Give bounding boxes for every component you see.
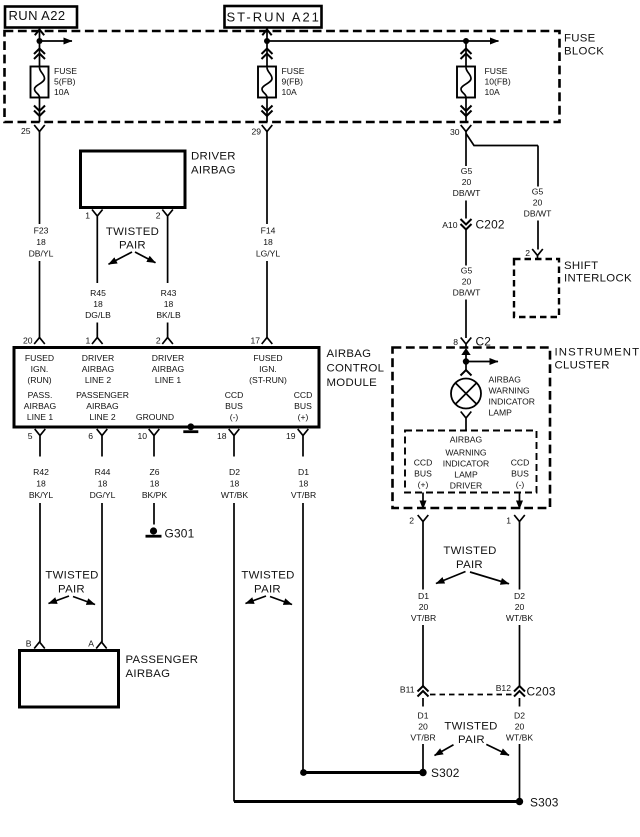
svg-text:(-): (-) [516,480,525,490]
svg-text:10A: 10A [485,87,501,97]
svg-text:DB/WT: DB/WT [453,288,481,298]
svg-text:6: 6 [88,431,93,441]
svg-text:GROUND: GROUND [136,412,174,422]
svg-text:B12: B12 [496,683,512,693]
svg-text:2: 2 [156,336,161,346]
svg-text:R44: R44 [95,467,111,477]
svg-text:ST-RUN A21: ST-RUN A21 [227,10,321,25]
svg-text:20: 20 [419,602,429,612]
svg-text:AIRBAG: AIRBAG [191,165,236,177]
svg-text:TWISTED: TWISTED [241,570,294,582]
svg-text:18: 18 [36,479,46,489]
svg-text:18: 18 [98,479,108,489]
svg-text:D2: D2 [229,467,240,477]
svg-text:G301: G301 [165,527,195,541]
svg-text:R43: R43 [161,288,177,298]
svg-text:TWISTED: TWISTED [444,721,497,733]
svg-text:BLOCK: BLOCK [564,46,604,58]
svg-text:CCD: CCD [511,458,530,468]
svg-text:AIRBAG: AIRBAG [152,364,185,374]
svg-text:CLUSTER: CLUSTER [555,360,610,372]
svg-text:10A: 10A [54,87,70,97]
svg-text:MODULE: MODULE [327,377,378,389]
svg-text:VT/BR: VT/BR [410,733,435,743]
svg-text:5(FB): 5(FB) [54,77,76,87]
svg-text:DRIVER: DRIVER [450,481,482,491]
svg-text:(+): (+) [418,480,429,490]
svg-text:TWISTED: TWISTED [45,570,98,582]
svg-text:20: 20 [462,177,472,187]
svg-text:20: 20 [462,277,472,287]
svg-text:S303: S303 [530,796,559,810]
svg-text:F14: F14 [261,226,276,236]
svg-text:2: 2 [525,248,530,258]
svg-text:Z6: Z6 [149,467,159,477]
svg-text:CCD: CCD [294,390,313,400]
svg-text:(ST-RUN): (ST-RUN) [249,375,287,385]
svg-text:D2: D2 [514,591,525,601]
svg-text:B11: B11 [400,684,415,694]
svg-text:R45: R45 [90,288,106,298]
svg-text:9(FB): 9(FB) [282,77,304,87]
svg-text:29: 29 [251,127,261,137]
svg-text:18: 18 [217,431,227,441]
svg-text:CCD: CCD [225,390,244,400]
svg-text:FUSE: FUSE [54,66,77,76]
svg-text:PAIR: PAIR [119,240,146,252]
svg-text:PASSENGER: PASSENGER [76,390,129,400]
svg-text:DG/LB: DG/LB [85,310,111,320]
svg-text:BUS: BUS [294,401,312,411]
svg-text:TWISTED: TWISTED [443,545,496,557]
svg-text:5: 5 [28,431,33,441]
svg-text:AIRBAG: AIRBAG [24,401,57,411]
svg-text:WT/BK: WT/BK [506,733,533,743]
svg-text:VT/BR: VT/BR [291,490,316,500]
svg-text:FUSE: FUSE [282,66,305,76]
svg-text:BUS: BUS [414,469,432,479]
svg-text:INTERLOCK: INTERLOCK [564,273,632,285]
svg-text:LINE 1: LINE 1 [27,412,53,422]
svg-text:BK/LB: BK/LB [156,310,181,320]
svg-text:18: 18 [93,299,103,309]
svg-text:G5: G5 [532,187,544,197]
svg-text:AIRBAG: AIRBAG [450,435,483,445]
svg-text:PASS.: PASS. [28,390,53,400]
svg-text:TWISTED: TWISTED [106,226,159,238]
svg-text:CONTROL: CONTROL [327,363,385,375]
svg-text:AIRBAG: AIRBAG [489,375,522,385]
svg-text:G5: G5 [461,166,473,176]
svg-text:INSTRUMENT: INSTRUMENT [555,347,640,359]
svg-text:A: A [88,639,94,649]
svg-text:BK/YL: BK/YL [29,490,54,500]
svg-text:INDICATOR: INDICATOR [443,459,489,469]
svg-text:C202: C202 [476,218,505,232]
svg-text:LG/YL: LG/YL [256,249,281,259]
svg-text:FUSE: FUSE [485,66,508,76]
svg-text:FUSED: FUSED [25,353,54,363]
svg-text:FUSED: FUSED [253,353,282,363]
svg-text:DRIVER: DRIVER [191,151,236,163]
svg-text:20: 20 [23,336,33,346]
svg-text:LINE 2: LINE 2 [85,375,111,385]
svg-text:FUSE: FUSE [564,33,596,45]
svg-text:20: 20 [418,722,428,732]
svg-text:2: 2 [409,516,414,526]
svg-text:PASSENGER: PASSENGER [126,654,199,666]
svg-text:1: 1 [86,336,91,346]
svg-text:DRIVER: DRIVER [152,353,184,363]
svg-text:PAIR: PAIR [254,583,281,595]
svg-text:B: B [26,639,32,649]
svg-text:VT/BR: VT/BR [411,613,436,623]
svg-text:LAMP: LAMP [489,408,513,418]
svg-text:18: 18 [36,237,46,247]
svg-text:10(FB): 10(FB) [485,77,511,87]
svg-text:BK/PK: BK/PK [142,490,168,500]
svg-text:25: 25 [21,126,31,136]
svg-text:19: 19 [286,431,296,441]
svg-text:8: 8 [453,337,458,347]
svg-text:WARNING: WARNING [489,386,531,396]
svg-text:SHIFT: SHIFT [564,260,598,272]
svg-text:20: 20 [515,722,525,732]
svg-text:AIRBAG: AIRBAG [86,401,119,411]
svg-text:WARNING: WARNING [445,448,487,458]
svg-text:S302: S302 [431,766,460,780]
svg-text:WT/BK: WT/BK [221,490,248,500]
svg-text:G5: G5 [461,266,473,276]
svg-text:D1: D1 [418,711,429,721]
svg-text:LAMP: LAMP [454,470,478,480]
svg-text:A10: A10 [442,220,458,230]
svg-text:DB/WT: DB/WT [453,188,481,198]
svg-text:(RUN): (RUN) [27,375,51,385]
svg-text:10: 10 [137,431,147,441]
svg-text:20: 20 [533,198,543,208]
svg-text:DB/YL: DB/YL [29,249,54,259]
svg-text:DB/WT: DB/WT [524,209,552,219]
svg-text:PAIR: PAIR [58,583,85,595]
svg-text:D1: D1 [418,591,429,601]
svg-text:(+): (+) [298,412,309,422]
svg-text:R42: R42 [33,467,49,477]
svg-text:DG/YL: DG/YL [90,490,116,500]
svg-text:PAIR: PAIR [456,559,483,571]
svg-text:18: 18 [263,237,273,247]
svg-text:20: 20 [515,602,525,612]
svg-text:30: 30 [450,127,460,137]
svg-text:1: 1 [506,516,511,526]
svg-text:IGN.: IGN. [31,364,49,374]
svg-text:LINE 2: LINE 2 [89,412,115,422]
svg-text:AIRBAG: AIRBAG [327,348,372,360]
svg-text:D1: D1 [298,467,309,477]
svg-text:C203: C203 [527,685,556,699]
svg-text:2: 2 [156,211,161,221]
svg-text:F23: F23 [34,226,49,236]
svg-text:AIRBAG: AIRBAG [82,364,115,374]
svg-text:(-): (-) [230,412,239,422]
svg-text:WT/BK: WT/BK [506,613,533,623]
svg-text:INDICATOR: INDICATOR [489,397,535,407]
svg-text:18: 18 [150,479,160,489]
svg-text:DRIVER: DRIVER [82,353,114,363]
svg-text:AIRBAG: AIRBAG [126,668,171,680]
svg-text:18: 18 [230,479,240,489]
svg-text:IGN.: IGN. [259,364,277,374]
svg-text:D2: D2 [514,711,525,721]
svg-text:18: 18 [299,479,309,489]
svg-text:BUS: BUS [511,469,529,479]
svg-text:18: 18 [164,299,174,309]
svg-text:PAIR: PAIR [458,734,485,746]
svg-text:10A: 10A [282,87,298,97]
svg-text:BUS: BUS [225,401,243,411]
svg-text:LINE 1: LINE 1 [155,375,181,385]
svg-text:RUN A22: RUN A22 [9,8,66,23]
svg-text:1: 1 [85,211,90,221]
svg-text:17: 17 [250,336,260,346]
svg-text:CCD: CCD [414,458,433,468]
